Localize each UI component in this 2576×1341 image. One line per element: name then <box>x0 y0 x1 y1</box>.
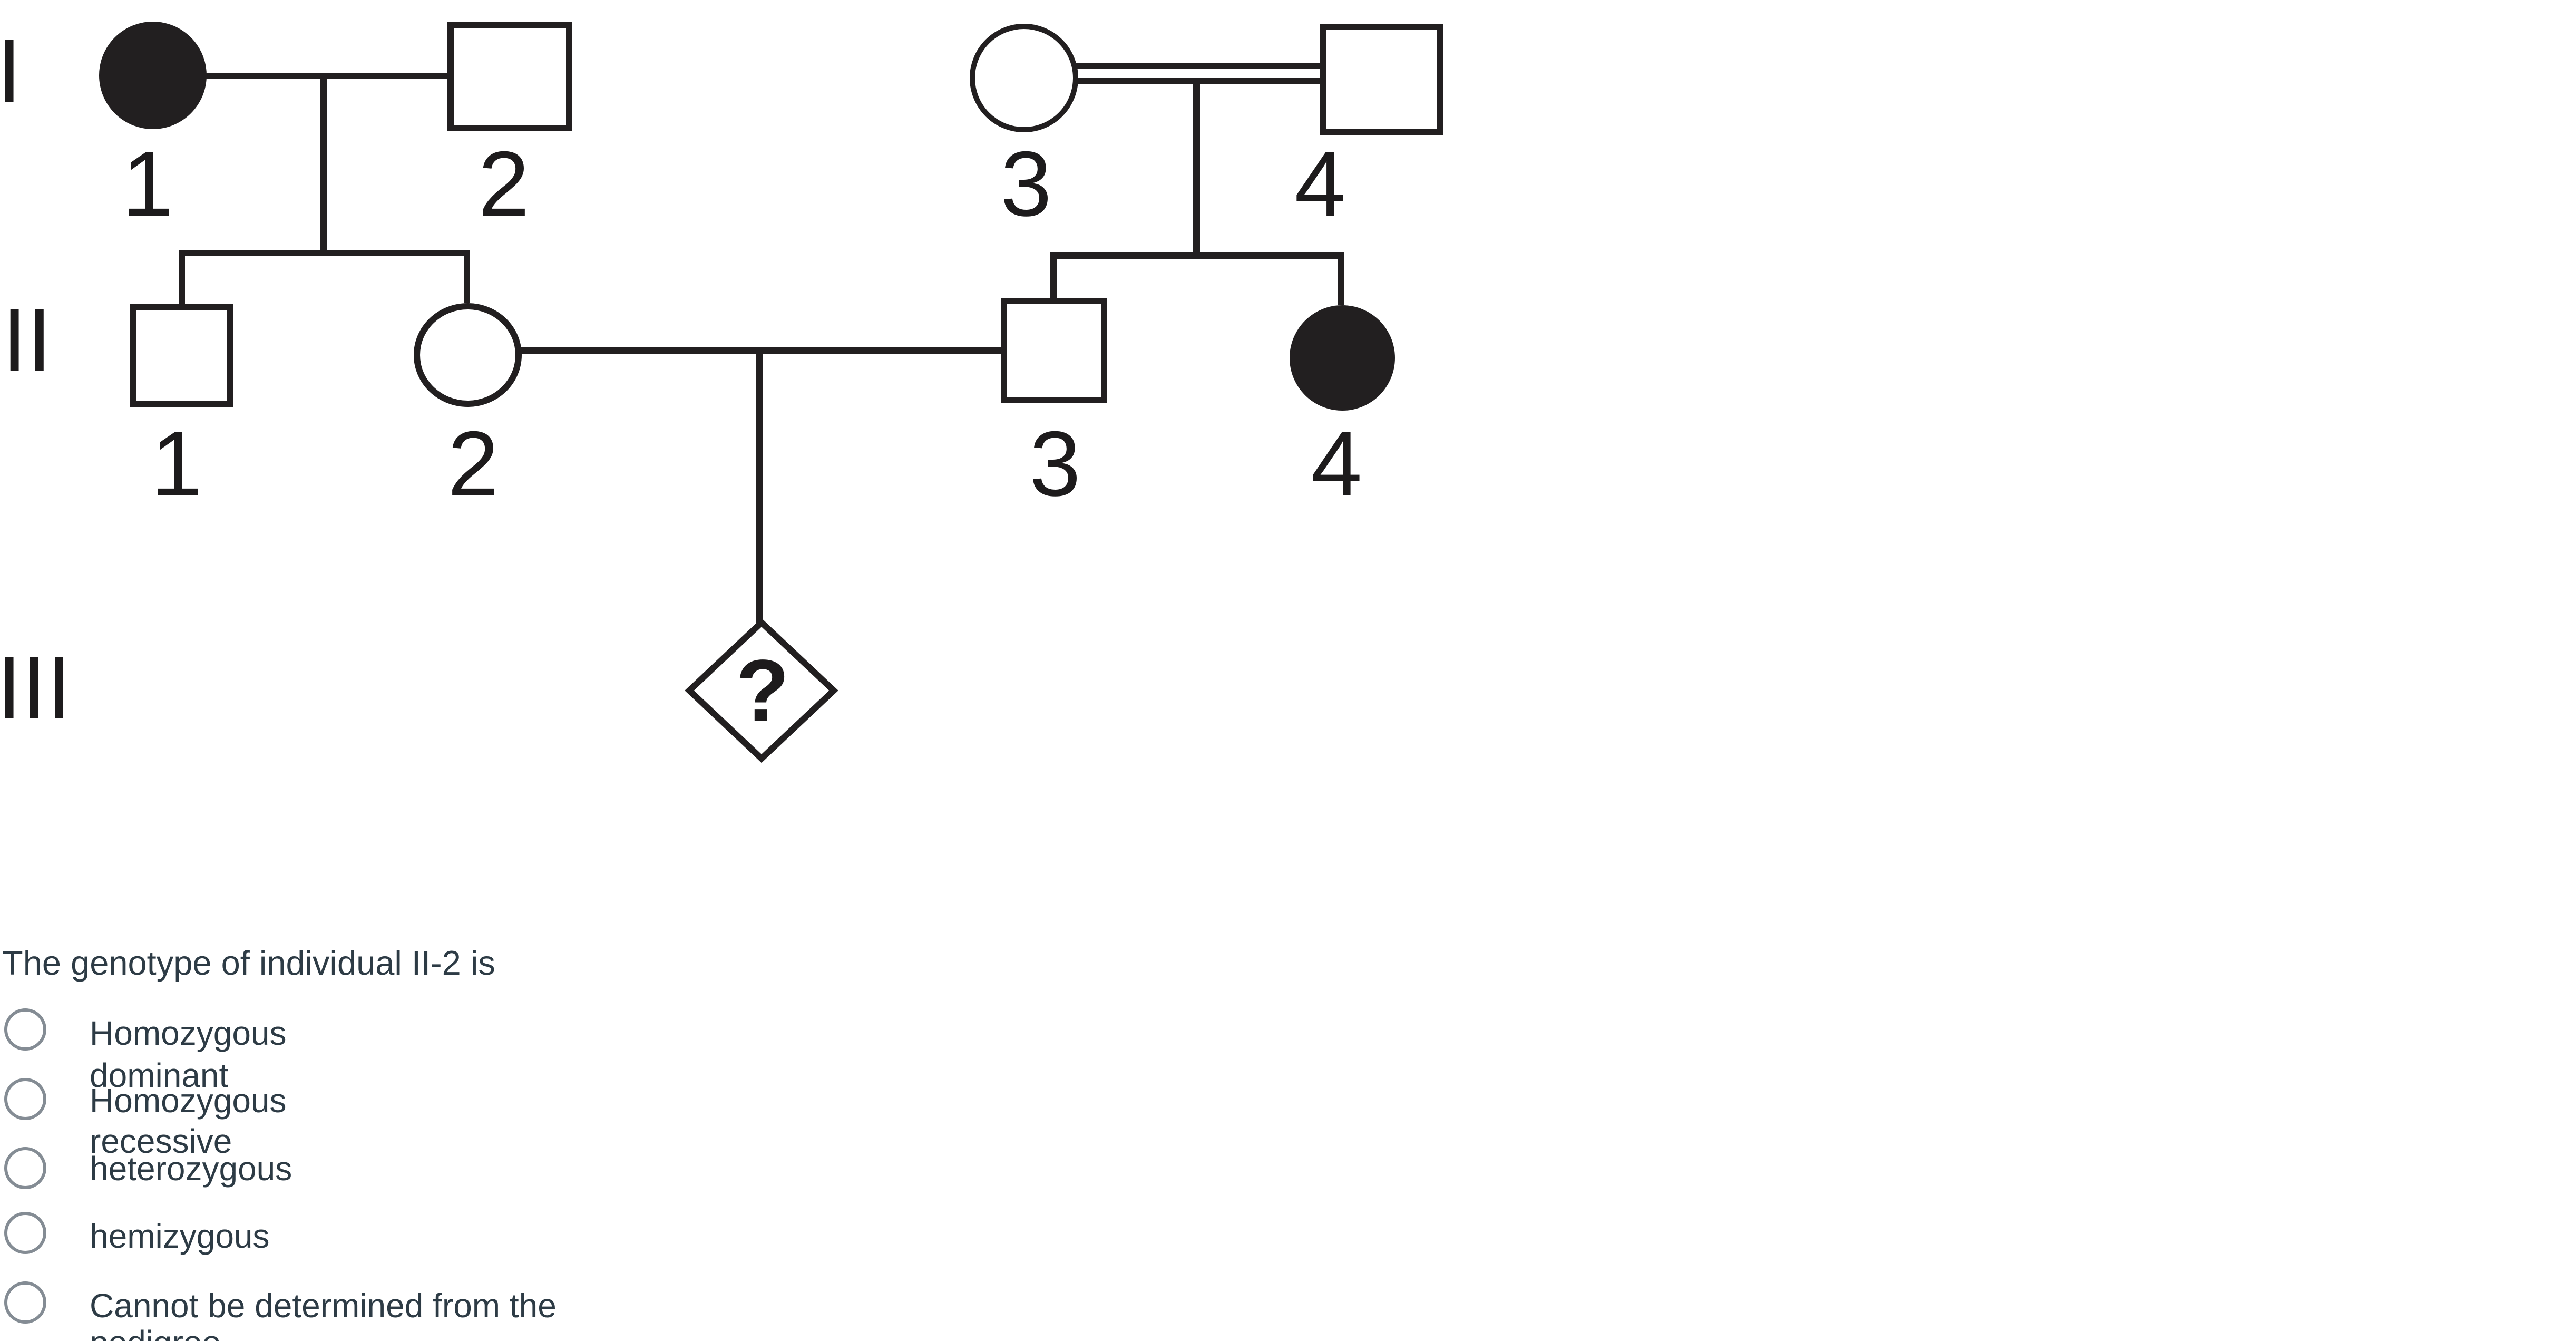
label 4 (I-4) <box>1289 138 1352 230</box>
individual I-4 male (square) <box>1320 24 1443 135</box>
marriage line II-2 to II-3 <box>521 347 1002 354</box>
question text <box>2 942 495 984</box>
descent line from I-1/I-2 marriage <box>320 75 327 256</box>
sibship line left family <box>179 250 470 256</box>
radio button option 3 <box>4 1147 46 1189</box>
label 2 (I-2) <box>472 138 535 230</box>
consanguinity double line lower <box>1075 78 1320 84</box>
descent line from I-3/I-4 marriage <box>1193 81 1200 259</box>
drop line to II-4 <box>1338 252 1344 305</box>
label 2 (II-2) <box>442 418 505 510</box>
descent line to III diamond <box>756 347 763 627</box>
marriage line I-1 to I-2 <box>203 73 449 79</box>
radio button option 2 <box>4 1078 46 1120</box>
generation label I <box>0 26 22 116</box>
label 1 (I-1) <box>116 138 179 230</box>
label 3 (I-3) <box>994 138 1058 230</box>
generation label III <box>0 643 72 733</box>
individual II-1 male (square) <box>130 304 233 407</box>
option 1 text: Homozygous dominant <box>90 1012 287 1096</box>
individual II-2 female (open circle) <box>414 303 522 407</box>
option 5 text: Cannot be determined from the pedigree <box>90 1287 557 1341</box>
option 2 text: Homozygous recessive <box>90 1081 287 1162</box>
drop line to II-3 <box>1050 252 1057 298</box>
individual I-3 female (open circle) <box>970 24 1078 132</box>
generation label II <box>2 296 52 385</box>
radio button option 4 <box>4 1212 46 1254</box>
sibship line right family <box>1050 252 1344 259</box>
individual II-4 affected female (filled circle) <box>1290 305 1395 411</box>
option 4 text: hemizygous <box>90 1215 270 1257</box>
individual I-1 affected female (filled circle) <box>99 22 207 129</box>
drop line to II-2 <box>464 250 470 303</box>
label 1 (II-1) <box>145 418 208 510</box>
individual III-? unknown sex (diamond) <box>682 617 841 764</box>
question mark in diamond <box>710 647 815 735</box>
label 4 (II-4) <box>1305 418 1368 510</box>
individual I-2 male (square) <box>447 22 572 131</box>
radio button option 5 <box>4 1281 46 1324</box>
drop line to II-1 <box>179 250 185 304</box>
option 3 text: heterozygous <box>90 1148 292 1190</box>
consanguinity double line upper <box>1075 63 1320 69</box>
radio button option 1 <box>4 1008 46 1051</box>
individual II-3 male (square) <box>1001 298 1107 403</box>
label 3 (II-3) <box>1023 418 1087 510</box>
